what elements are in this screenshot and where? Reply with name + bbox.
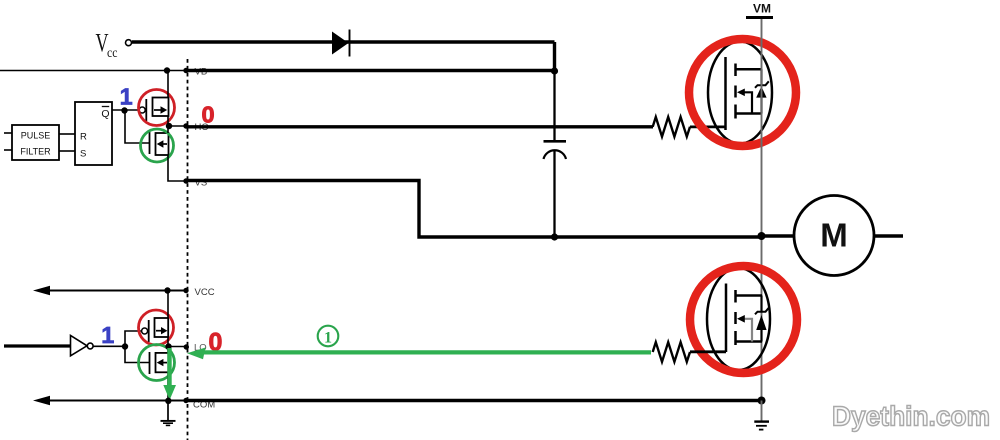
wire HO internal	[168, 125, 186, 127]
wire inverter input	[4, 344, 71, 347]
node VS cap junction	[551, 233, 558, 240]
svg-text:PULSE: PULSE	[21, 131, 51, 141]
wire from diode down to VB	[553, 42, 556, 71]
wire Vcc top rail	[132, 40, 555, 43]
wire HO external	[186, 125, 653, 128]
wire M3 drain to VCC	[167, 291, 169, 319]
node HO junction	[166, 123, 172, 129]
transistor Q2 power MOSFET (low side)	[707, 268, 770, 370]
wire resistor to Q1 gate	[690, 126, 726, 129]
node LO junction	[165, 343, 171, 349]
transistor M4 driver NMOS (bottom)	[150, 352, 169, 374]
resistor R1 gate top	[653, 117, 690, 137]
annotation red circle around M1	[139, 90, 175, 126]
ground power COM	[754, 401, 769, 430]
svg-text:Q: Q	[101, 108, 109, 120]
wire VB internal thin	[0, 70, 187, 72]
node VB cap junction	[551, 67, 558, 74]
ground IC COM	[161, 401, 176, 426]
wire M2 source down to VS	[168, 155, 186, 181]
annotation red circle around M3	[139, 310, 174, 345]
wire M4 source to COM	[167, 372, 169, 400]
transistor M2 driver NMOS (top)	[150, 132, 169, 155]
node COM junction	[165, 398, 171, 404]
node VB internal junction	[164, 67, 170, 73]
node driver input junction	[122, 343, 128, 349]
wire Qbar output	[112, 109, 140, 111]
svg-text:1: 1	[324, 329, 332, 346]
boundary IC dashed line	[187, 59, 189, 440]
wire branch up to PMOS gate	[125, 331, 142, 347]
node midpoint junction	[758, 232, 766, 240]
diode D1 bootstrap	[332, 30, 350, 57]
annotation green circle around M4	[139, 345, 175, 381]
svg-text:S: S	[80, 149, 86, 160]
node VCC pin dot	[183, 288, 188, 293]
wire VCC internal rail	[47, 290, 186, 292]
wire inverter output	[93, 345, 125, 347]
wire VM rail down (gray)	[761, 19, 763, 401]
node LO pin dot	[184, 344, 189, 349]
transistor M1 driver PMOS (top)	[139, 98, 168, 122]
annotation red circle around Q1	[689, 39, 796, 146]
node VB pin dot	[183, 68, 188, 73]
highlight green arrow into LO	[187, 348, 651, 360]
node HO pin dot	[183, 123, 188, 128]
wire M1 source to HO	[167, 116, 169, 126]
supply VM bar	[746, 16, 773, 19]
svg-text:1: 1	[120, 84, 133, 110]
wire COM external	[186, 399, 762, 402]
node COM pin dot	[183, 398, 188, 403]
annotation green circled 1	[318, 326, 339, 347]
transistor Q1 power MOSFET (high side)	[708, 42, 772, 144]
svg-text:FILTER: FILTER	[20, 147, 51, 157]
inverter U2	[71, 336, 94, 356]
wire M4 drain to LO	[167, 347, 169, 353]
wire capacitor to VS	[553, 151, 555, 237]
wire branch down to NMOS gate	[125, 347, 150, 363]
capacitor C1 bootstrap	[544, 141, 567, 159]
svg-text:cc: cc	[107, 46, 118, 61]
wire M3 source to LO	[167, 337, 169, 347]
node Qbar junction	[121, 107, 127, 113]
node COM right junction	[758, 397, 766, 405]
wire M2 drain to HO	[167, 126, 169, 133]
motor M	[762, 196, 903, 276]
latch U1 RS box	[75, 102, 112, 165]
wire M1 drain to VB	[167, 71, 169, 98]
wire filter to S	[59, 150, 75, 152]
wire VS external jog	[186, 181, 762, 238]
svg-text:Dyethin.com: Dyethin.com	[832, 401, 990, 432]
svg-text:VM: VM	[753, 2, 771, 16]
annotation green circle around M2	[141, 129, 174, 162]
arrow VCC rail left	[33, 286, 50, 295]
wire VB external	[186, 69, 555, 72]
wire pulse filter input 1	[4, 132, 12, 134]
svg-text:R: R	[80, 132, 87, 143]
highlight green arrow down to COM	[163, 348, 176, 400]
wire VB to capacitor	[553, 71, 555, 141]
resistor R2 gate bottom	[653, 342, 690, 362]
svg-text:0: 0	[202, 101, 215, 127]
svg-text:VCC: VCC	[195, 287, 215, 298]
wire Qbar branch down to NMOS gate	[125, 110, 150, 143]
svg-text:1: 1	[101, 322, 114, 348]
node VCC junction	[164, 287, 170, 293]
wire LO internal	[168, 346, 186, 348]
wire COM internal rail	[47, 400, 186, 402]
svg-text:M: M	[820, 217, 848, 254]
label Vcc	[96, 29, 118, 62]
wire resistor to Q2 gate	[690, 350, 726, 353]
annotation red circle around Q2	[690, 266, 797, 373]
transistor M3 driver PMOS (bottom)	[142, 318, 169, 342]
node VS pin dot	[183, 178, 188, 183]
terminal Vcc circle	[126, 40, 132, 46]
wire filter to R	[59, 133, 75, 135]
pulse filter block	[12, 125, 59, 160]
wire pulse filter input 2	[4, 149, 12, 151]
arrow COM rail left	[33, 396, 50, 405]
